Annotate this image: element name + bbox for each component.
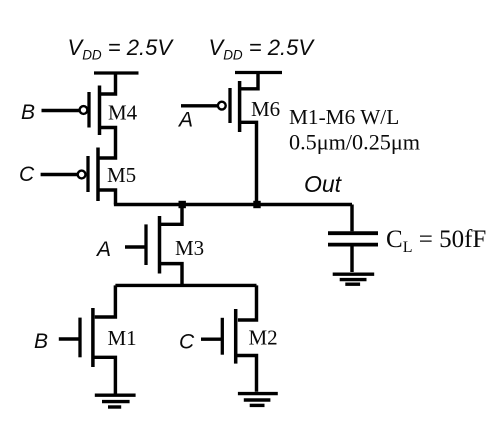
svg-text:M1: M1 xyxy=(108,326,137,350)
svg-text:M5: M5 xyxy=(107,163,136,187)
wire B to M4 gate xyxy=(42,109,80,112)
wire M2 source to ground xyxy=(236,356,257,392)
svg-text:0.5μm/0.25μm: 0.5μm/0.25μm xyxy=(289,130,420,155)
transistor M6 (PMOS) xyxy=(218,81,240,132)
svg-text:M4: M4 xyxy=(108,101,138,125)
svg-text:CL = 50fF: CL = 50fF xyxy=(386,226,486,256)
label M3 xyxy=(175,236,204,260)
label VDD = 2.5V (right) xyxy=(209,35,316,63)
wire M3 source down to internal node xyxy=(160,264,183,286)
label M2 xyxy=(249,326,278,350)
wire C to M2 gate xyxy=(201,337,222,340)
wire M4 drain to M5 source xyxy=(99,128,116,159)
wire M5 drain to out node xyxy=(98,190,116,205)
svg-text:M1-M6 W/L: M1-M6 W/L xyxy=(289,105,399,129)
label sizing text 0.5um/0.25um xyxy=(289,130,420,155)
svg-text:B: B xyxy=(34,330,48,353)
label CL = 50fF xyxy=(386,226,486,256)
label M4 xyxy=(108,101,138,125)
label sizing text M1-M6 W/L xyxy=(289,105,399,129)
wire Out to capacitor xyxy=(350,205,353,232)
wire A to M3 gate xyxy=(125,245,146,248)
wire M6 drain down to Out node xyxy=(240,122,257,204)
transistor M3 (NMOS) xyxy=(146,216,160,274)
svg-text:A: A xyxy=(95,238,111,261)
svg-text:B: B xyxy=(21,101,35,124)
svg-text:M2: M2 xyxy=(249,326,278,350)
label M6 xyxy=(251,97,280,121)
svg-text:M6: M6 xyxy=(251,97,280,121)
node C label xyxy=(19,163,35,186)
wire VDD rail to M6 source xyxy=(241,73,259,89)
transistor M5 (PMOS) xyxy=(78,148,98,202)
svg-text:C: C xyxy=(19,163,35,186)
wire A to M6 gate xyxy=(181,104,218,107)
node Out label xyxy=(304,171,343,197)
transistor M1 (NMOS) xyxy=(80,308,93,367)
junction dot at M6 drain xyxy=(253,201,260,208)
wire M1 source to ground xyxy=(93,357,116,393)
wire VDD rail to M4 source xyxy=(99,73,116,94)
junction dot at M3 drain xyxy=(179,201,186,208)
svg-text:C: C xyxy=(179,331,195,354)
wire internal rail to M2 drain xyxy=(238,285,257,320)
node A label (inverted input to M6) xyxy=(177,109,193,132)
label M1 xyxy=(108,326,137,350)
wire Out node to M3 drain xyxy=(161,205,182,225)
power rail VDD right xyxy=(235,71,282,74)
svg-text:M3: M3 xyxy=(175,236,204,260)
svg-text:Out: Out xyxy=(304,171,343,197)
transistor M2 (NMOS) xyxy=(222,309,235,364)
power rail VDD left xyxy=(94,71,139,74)
capacitor CL xyxy=(328,233,378,244)
wire output net xyxy=(114,203,352,206)
wire capacitor to ground xyxy=(350,245,353,272)
wire B to M1 gate xyxy=(59,337,80,340)
label VDD = 2.5V (left) xyxy=(68,35,175,63)
wire C to M5 gate xyxy=(41,173,78,176)
ground symbol (M2) xyxy=(238,394,278,406)
svg-text:A: A xyxy=(177,109,193,132)
wire internal rail to M1 drain xyxy=(95,285,116,317)
node A label (M3 gate) xyxy=(95,238,111,261)
node B label xyxy=(21,101,35,124)
label M5 xyxy=(107,163,136,187)
ground symbol (M1) xyxy=(95,395,136,407)
node B label (M1 gate) xyxy=(34,330,48,353)
transistor M4 (PMOS) xyxy=(80,86,100,136)
wire internal node rail xyxy=(115,284,256,287)
ground symbol (capacitor) xyxy=(333,274,375,284)
node C label (M2 gate) xyxy=(179,331,195,354)
